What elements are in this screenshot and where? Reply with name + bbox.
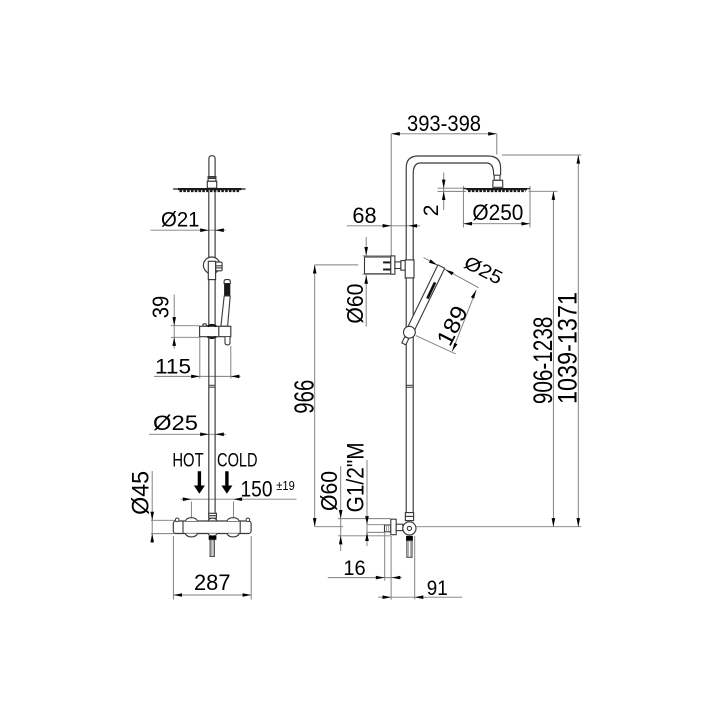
head connector nut (side) (493, 175, 503, 187)
dim 91 line (378, 596, 462, 598)
mixer end screws (175, 518, 179, 522)
dim Ø250 line (463, 223, 530, 225)
riser sleeve at bracket (405, 260, 414, 278)
lower supply flange plate (391, 519, 396, 535)
svg-text:Ø45: Ø45 (127, 471, 154, 515)
mixer center top bulge (208, 518, 217, 521)
elbow sleeve on rail (208, 261, 215, 279)
hand shower handle (221, 296, 230, 326)
bracket screws (383, 261, 391, 263)
hand shower (side, tilted) body (406, 265, 445, 334)
svg-text:COLD: COLD (217, 450, 258, 471)
svg-text:Ø250: Ø250 (472, 200, 523, 225)
elbow knob (216, 262, 223, 271)
dim 91 right extension (414, 536, 416, 599)
lower supply nipple (in wall) (385, 525, 391, 532)
dim 1039-1371 arrows (577, 155, 581, 164)
dim G1/2"M extension lines (367, 524, 385, 526)
mixer outlet pipe (210, 540, 214, 557)
dim 287 arrows (173, 593, 182, 597)
dim Ø60 upper extension lines (363, 255, 391, 257)
dim 68 arrows (383, 224, 392, 228)
head axis extension line (496, 134, 498, 155)
dim 906-1238 arrows (552, 191, 556, 200)
wall face extension line (390, 134, 392, 256)
dim 393-398 line (391, 133, 497, 135)
right valve dome (227, 518, 239, 537)
upper wall bracket anchor (365, 257, 391, 274)
dim 966 line (314, 265, 316, 527)
dim 906-1238 line (552, 191, 554, 526)
dim 189 line (452, 290, 476, 351)
svg-text:91: 91 (427, 576, 448, 600)
dim Ø60 lower line (340, 466, 342, 551)
left valve dome (185, 518, 197, 537)
dim 287 extension lines (172, 536, 174, 600)
dim 2 extension lines (438, 187, 467, 189)
shower arm (outer wall) (406, 156, 500, 200)
dim 189 bottom extension P2 (416, 336, 456, 354)
dim 189 arrows (471, 290, 476, 299)
svg-text:Ø21: Ø21 (161, 208, 200, 232)
lower outlet pipe (407, 541, 412, 558)
dim 16 arrows (376, 576, 385, 580)
riser joint lines (406, 385, 413, 387)
svg-text:Ø25: Ø25 (153, 411, 198, 435)
dim 16 extension lines (384, 533, 386, 581)
svg-text:966: 966 (289, 380, 320, 414)
lower elbow circle (403, 522, 416, 535)
capsule collar nut (208, 177, 216, 182)
head underside extension line (529, 190, 558, 192)
dim 115 extension lines (199, 338, 201, 379)
svg-text:39: 39 (147, 296, 173, 319)
hose hook below holder (225, 337, 230, 345)
shower head (front view, edge-on band) (173, 188, 246, 191)
dim 115 line (154, 375, 241, 377)
dim 91 arrows (383, 595, 392, 599)
hand shower pivot tail (402, 337, 409, 345)
dim G1/2"M arrows (365, 516, 369, 525)
shower head (side view band) (464, 188, 531, 191)
svg-text:68: 68 (352, 203, 376, 228)
top pipe capsule (209, 156, 215, 177)
svg-text:G1/2"M: G1/2"M (342, 442, 369, 512)
svg-text:±19: ±19 (276, 478, 295, 493)
dim 150 line (181, 498, 297, 500)
head connector block (207, 181, 216, 188)
svg-text:393-398: 393-398 (407, 111, 481, 136)
bracket neck (395, 262, 401, 269)
supply centerline extension (315, 526, 343, 528)
arm top extension line (502, 154, 581, 156)
hand shower spray face stripe (427, 282, 435, 298)
svg-text:2: 2 (420, 205, 443, 217)
COLD inlet arrow (221, 471, 232, 494)
bracket pipe clamp (401, 261, 406, 271)
spray nozzles ticks (180, 190, 241, 192)
svg-text:150: 150 (241, 476, 273, 501)
mixer bottom center bulge (208, 534, 217, 536)
thermostatic mixer body (173, 521, 251, 534)
dim 115 arrows (191, 375, 200, 379)
extension lines (grey) right figure (315, 134, 582, 600)
extension lines (grey) left figure (149, 230, 297, 599)
svg-text:16: 16 (343, 556, 365, 580)
rail lower section (209, 337, 215, 514)
dim 393-398 arrows (391, 132, 400, 136)
dim Ø25 diagonal arrows (429, 259, 437, 265)
dim 16 line (328, 577, 402, 579)
hand shower top cap (224, 280, 230, 284)
lower elbow hub (407, 526, 411, 530)
dim Ø25 arrows (200, 433, 209, 437)
dim Ø60 lower arrows (339, 510, 343, 519)
svg-text:287: 287 (194, 570, 231, 595)
dim Ø25 diagonal line P1 (424, 258, 479, 288)
svg-text:Ø60: Ø60 (316, 471, 342, 511)
dim 39 arrows (172, 317, 176, 326)
riser pipe middle (406, 278, 413, 513)
dim 1039-1371 line (577, 155, 579, 527)
hand shower head (dark) (224, 284, 230, 297)
holder rail bulges (208, 325, 217, 338)
dim 966 top extension (315, 264, 359, 266)
shower arm (inner wall) (413, 163, 493, 200)
dim Ø21 line (151, 229, 226, 231)
mixer end cap divider lines (183, 521, 240, 534)
dim 2 line (443, 173, 445, 211)
riser collar above lower elbow (405, 513, 413, 521)
lower outlet black fitting (406, 536, 413, 541)
dim Ø60 upper line (365, 237, 367, 327)
dim G1/2"M line (366, 460, 368, 546)
svg-text:HOT: HOT (172, 450, 204, 471)
dim 150 extension lines (190, 502, 192, 518)
rail upper section (209, 191, 215, 261)
svg-text:1039-1371: 1039-1371 (553, 292, 583, 404)
svg-text:Ø60: Ø60 (342, 284, 368, 324)
elbow pivot circle (203, 257, 220, 274)
dim 39 line (173, 295, 175, 349)
svg-text:115: 115 (155, 354, 191, 378)
dim Ø250 arrows (463, 222, 472, 226)
dim Ø250 extension lines (462, 186, 464, 228)
dim 287 line (173, 594, 251, 596)
slider holder (200, 324, 231, 337)
dim 68 line (347, 225, 420, 227)
dim Ø45 line (151, 471, 153, 543)
dim Ø45 extension lines (151, 519, 175, 521)
riser pipe upper (406, 200, 413, 260)
rail mid section (209, 280, 215, 327)
bracket flange plate (391, 256, 395, 274)
dim 39 extension lines (171, 325, 200, 327)
dim Ø60 upper arrows (364, 247, 368, 256)
dim 150 arrows (183, 497, 192, 501)
dim Ø25 line (149, 433, 226, 435)
dim 2 arrows (442, 180, 446, 189)
dim 966 arrows (313, 265, 317, 274)
dim Ø60 lower extension lines (338, 518, 391, 520)
mixer outlet black fitting (209, 536, 217, 540)
dim Ø21 arrows (200, 228, 209, 232)
HOT inlet arrow (194, 471, 205, 494)
rail collar above mixer (209, 513, 217, 518)
lower supply neck (396, 524, 403, 530)
dim Ø45 arrows (150, 512, 154, 521)
rail joint lines (209, 385, 215, 387)
hand shower pivot circle (404, 326, 416, 338)
